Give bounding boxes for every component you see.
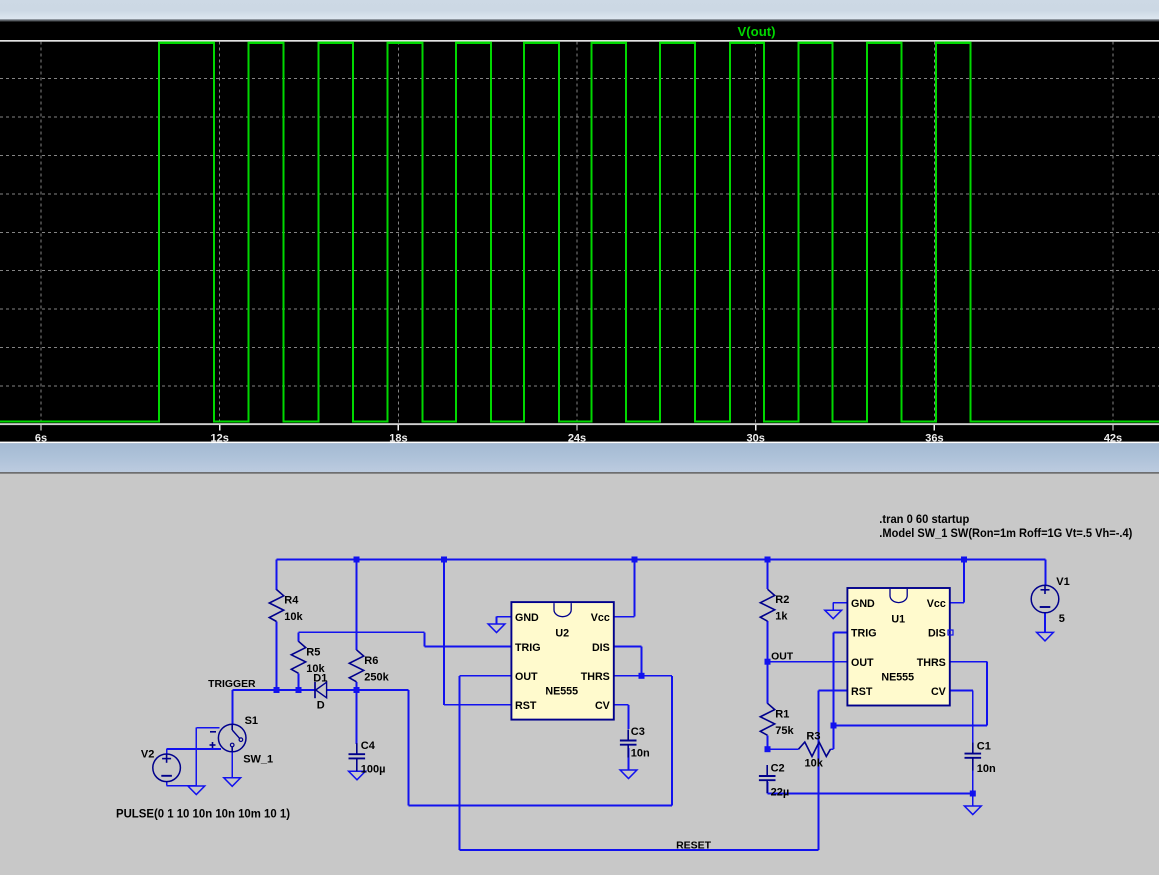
ground (825, 610, 842, 619)
junction (632, 557, 638, 563)
wire V2 plus stub (166, 749, 168, 754)
wire S1 minus to ground (195, 728, 197, 786)
wire R5 top stub (298, 632, 300, 641)
label C1 (977, 741, 991, 753)
svg-text:250k: 250k (364, 671, 389, 683)
wire S1 minus stub (196, 727, 219, 729)
capacitor C1 (965, 743, 982, 771)
wire to U2 TRIG pin (425, 646, 512, 648)
svg-text:100µ: 100µ (361, 763, 386, 775)
value SW_1 (S1) (243, 753, 273, 765)
junction (961, 557, 967, 563)
pin DIS (U1) (928, 628, 946, 640)
svg-text:THRS: THRS (581, 671, 610, 683)
spice directive .Model (879, 526, 1132, 540)
label D1 (313, 672, 327, 684)
wire U2 OUT stub (460, 675, 512, 677)
junction (274, 687, 280, 693)
wire R4 to TRIGGER node (276, 622, 278, 691)
ground (488, 624, 505, 633)
value PULSE (V2) (116, 806, 290, 820)
resistor R2 (760, 589, 774, 621)
label C3 (631, 726, 645, 738)
svg-text:5: 5 (1059, 613, 1065, 625)
plot background (0, 0, 1159, 443)
value 10k (R3) (805, 757, 824, 769)
label S1 (245, 715, 258, 727)
op-amp/timer IC U1 NE555 body (847, 588, 949, 706)
svg-text:1k: 1k (775, 611, 788, 623)
junction (354, 557, 360, 563)
wire bus to R4 (276, 560, 278, 591)
label R1 (775, 708, 789, 720)
svg-text:GND: GND (515, 612, 539, 624)
pin THRS (U2) (581, 671, 610, 683)
svg-text:CV: CV (931, 686, 947, 698)
pin TRIG (U2) (515, 642, 541, 654)
ground (224, 778, 241, 787)
schematic background (0, 474, 1159, 875)
wire C2 bottom (767, 782, 769, 794)
svg-text:D1: D1 (313, 672, 327, 684)
svg-text:PULSE(0 1 10 10n 10n 10m 10 1): PULSE(0 1 10 10n 10n 10m 10 1) (116, 806, 290, 820)
svg-text:R6: R6 (364, 655, 378, 667)
wire up to U1 THRS (986, 662, 988, 726)
resistor R1 (760, 703, 774, 735)
label C2 (771, 763, 785, 775)
wire U1 TRIG stub (834, 632, 848, 634)
svg-text:GND: GND (851, 598, 875, 610)
plot top border (0, 40, 1159, 42)
pin GND (U2) (515, 612, 539, 624)
label V1 (1056, 576, 1069, 588)
wire Vcc bus (277, 559, 1046, 561)
wire U1 TRIG down (833, 633, 835, 726)
plot bottom border (0, 423, 1159, 425)
resistor R6 (349, 650, 363, 682)
svg-text:R5: R5 (306, 646, 320, 658)
svg-text:10n: 10n (631, 748, 650, 760)
label U1 (891, 613, 905, 625)
node OUT (771, 652, 794, 663)
resistor R3 (799, 742, 831, 756)
wire U1 Vcc stub (950, 602, 964, 604)
blue status/scroll bar (0, 443, 1159, 474)
svg-text:NE555: NE555 (881, 672, 914, 684)
value 10k (R4) (284, 611, 303, 623)
svg-text:.Model SW_1 SW(Ron=1m Roff=1G: .Model SW_1 SW(Ron=1m Roff=1G Vt=.5 Vh=-… (879, 526, 1132, 540)
value 100µ (C4) (361, 763, 386, 775)
wire V1 to ground (1044, 613, 1046, 632)
svg-text:NE555: NE555 (545, 686, 578, 698)
svg-text:22µ: 22µ (771, 787, 790, 799)
wire C1 down (972, 762, 974, 794)
pin Vcc (U2) (591, 612, 610, 624)
svg-text:RST: RST (515, 700, 537, 712)
wire U2 GND drop (496, 617, 498, 624)
wire TRIG-THRS link (834, 725, 988, 727)
svg-text:CV: CV (595, 700, 611, 712)
pin CV (U1) (931, 686, 947, 698)
wire up to U1 RST (818, 691, 820, 851)
resistor R5 (291, 641, 305, 673)
wire V2 minus stub (166, 782, 168, 786)
wire TRIGGER to S1 (232, 690, 234, 725)
wire bus to U2 Vcc (634, 560, 636, 617)
label R3 (806, 730, 820, 742)
svg-text:75k: 75k (775, 725, 794, 737)
wire U2 GND stub (497, 616, 512, 618)
svg-text:OUT: OUT (851, 657, 874, 669)
wire diode to C4 node (327, 689, 409, 691)
value NE555 (U1) (881, 672, 914, 684)
svg-text:DIS: DIS (592, 642, 610, 654)
wire TRIGGER net left (233, 689, 315, 691)
wire DIS to THRS (641, 647, 643, 676)
time axis ticks and labels (35, 425, 1122, 445)
svg-text:U1: U1 (891, 613, 905, 625)
svg-text:V(out): V(out) (738, 25, 776, 39)
junction (970, 791, 976, 797)
svg-text:C2: C2 (771, 763, 785, 775)
wire node to C4 (356, 690, 358, 744)
svg-text:R4: R4 (284, 595, 299, 607)
svg-text:U2: U2 (555, 627, 569, 639)
pin CV (U2) (595, 700, 611, 712)
wire up to U2 THRS (671, 676, 673, 806)
label R5 (306, 646, 320, 658)
junction (765, 557, 771, 563)
wire R1 to C2 node (767, 735, 769, 749)
wire C3 to ground (628, 748, 630, 770)
wire RESET net (460, 849, 819, 851)
pin OUT (U2) (515, 671, 538, 683)
wire U1 CV stub (950, 690, 973, 692)
value 5 (V1) (1059, 613, 1065, 625)
wire CV to C1 (972, 691, 974, 744)
value 10n (C1) (977, 763, 996, 775)
wire OUT node to R1 (767, 662, 769, 704)
unconnected pin marker U1 DIS (948, 630, 953, 635)
value D (D1) (317, 699, 325, 711)
wire bottom THRS link (409, 805, 673, 807)
switch S1 (210, 724, 247, 752)
wire R3 up (833, 726, 835, 750)
label R4 (284, 595, 299, 607)
wire U2 DIS stub (614, 646, 642, 648)
pin RST (U2) (515, 700, 537, 712)
svg-text:D: D (317, 699, 325, 711)
wire bus to U2 RST (443, 560, 445, 705)
trace name V(out) (738, 25, 776, 39)
svg-text:R1: R1 (775, 708, 789, 720)
svg-text:TRIG: TRIG (515, 642, 541, 654)
resistor R4 (269, 590, 283, 622)
junction (296, 687, 302, 693)
pin RST (U1) (851, 686, 873, 698)
value 1k (R2) (775, 611, 788, 623)
capacitor C3 (620, 730, 637, 758)
pin THRS (U1) (917, 657, 946, 669)
junction (765, 746, 771, 752)
wire R3 right (831, 748, 834, 750)
wire U2 Vcc stub (614, 616, 635, 618)
wire bus to R6 (356, 560, 358, 650)
ground (964, 806, 981, 815)
capacitor C4 (349, 743, 366, 771)
label R2 (775, 594, 789, 606)
svg-text:R2: R2 (775, 594, 789, 606)
wire bus to U1 Vcc (963, 560, 965, 603)
wire U1 THRS stub (950, 661, 987, 663)
wire R2 to OUT node (767, 621, 769, 662)
wire U2 THRS stub (614, 675, 672, 677)
op-amp/timer IC U2 NE555 body (511, 602, 613, 720)
wire U2 OUT down (459, 676, 461, 850)
svg-text:OUT: OUT (515, 671, 538, 683)
wire bus to R2 (767, 560, 769, 590)
wire V2 to S1 plus (167, 748, 221, 750)
wire S1 to ground (231, 752, 233, 778)
svg-text:V1: V1 (1056, 576, 1069, 588)
svg-text:V2: V2 (141, 748, 154, 760)
voltage source V2 (153, 754, 181, 782)
label R6 (364, 655, 378, 667)
svg-text:RST: RST (851, 686, 873, 698)
svg-text:S1: S1 (245, 715, 258, 727)
wire down to THRS link (408, 690, 410, 806)
wire bus to V1 (1045, 560, 1047, 586)
value 22µ (C2) (771, 787, 790, 799)
wire node to R3 (768, 748, 799, 750)
svg-text:R3: R3 (806, 730, 820, 742)
junction (639, 673, 645, 679)
svg-text:10n: 10n (977, 763, 996, 775)
wire jog down (424, 632, 426, 646)
wire rail to ground (972, 794, 974, 806)
node RESET (676, 840, 712, 851)
value 250k (R6) (364, 671, 389, 683)
pin DIS (U2) (592, 642, 610, 654)
svg-text:10k: 10k (805, 757, 824, 769)
junction (765, 659, 771, 665)
svg-text:Vcc: Vcc (927, 598, 946, 610)
ground (1037, 632, 1054, 641)
svg-text:10k: 10k (284, 611, 303, 623)
wire U1 RST stub (819, 690, 848, 692)
wire OUT node to U1 OUT pin (768, 661, 848, 663)
wire V2 to ground (167, 785, 197, 787)
wire R5 to TRIG jog (299, 631, 425, 633)
voltage source V1 (1031, 585, 1059, 613)
label V2 (141, 748, 154, 760)
svg-text:DIS: DIS (928, 628, 946, 640)
label C4 (361, 740, 376, 752)
top toolbar gradient bar (0, 0, 1159, 22)
wire CV to C3 (628, 705, 630, 729)
ground (620, 770, 637, 779)
label U2 (555, 627, 569, 639)
svg-text:SW_1: SW_1 (243, 753, 273, 765)
wire U2 CV stub (614, 704, 629, 706)
pin Vcc (U1) (927, 598, 946, 610)
svg-text:TRIG: TRIG (851, 628, 877, 640)
junction (441, 557, 447, 563)
node TRIGGER (208, 679, 256, 690)
wire U1 GND stub (839, 602, 848, 604)
pin GND (U1) (851, 598, 875, 610)
svg-text:C1: C1 (977, 741, 991, 753)
junction (831, 723, 837, 729)
spice directive .tran (879, 512, 969, 526)
svg-text:C4: C4 (361, 740, 376, 752)
svg-text:Vcc: Vcc (591, 612, 610, 624)
value NE555 (U2) (545, 686, 578, 698)
ground (188, 786, 205, 795)
svg-text:RESET: RESET (676, 840, 712, 851)
value 75k (R1) (775, 725, 794, 737)
svg-text:TRIGGER: TRIGGER (208, 679, 256, 690)
value 10n (C3) (631, 748, 650, 760)
ground (349, 771, 366, 780)
junction (354, 687, 360, 693)
value 10k (R5) (306, 663, 325, 675)
capacitor C2 (759, 765, 776, 793)
svg-text:C3: C3 (631, 726, 645, 738)
wire to U2 RST pin (444, 704, 511, 706)
pin OUT (U1) (851, 657, 874, 669)
wire R6 to node (356, 682, 358, 690)
wire bottom rail (768, 793, 973, 795)
svg-text:OUT: OUT (771, 652, 794, 663)
white separator line (0, 442, 1159, 444)
svg-text:.tran 0 60 startup: .tran 0 60 startup (879, 512, 969, 526)
wire U1 GND drop (832, 603, 834, 610)
wire R5 bottom (298, 673, 300, 690)
pin TRIG (U1) (851, 628, 877, 640)
wire U1 GND stub2 (833, 602, 838, 604)
waveform trace V(out) (0, 43, 1159, 422)
diode D1 (315, 682, 327, 698)
svg-text:THRS: THRS (917, 657, 946, 669)
